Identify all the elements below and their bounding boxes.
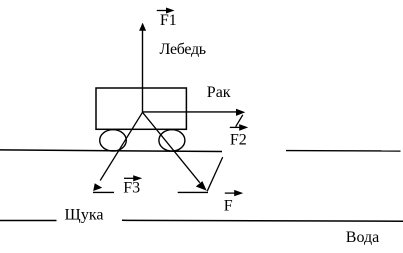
short line under F3 arrowhead bbox=[93, 191, 114, 193]
vector sign over F2 bbox=[230, 124, 248, 131]
svg-text:Вода: Вода bbox=[346, 229, 379, 246]
svg-text:Рак: Рак bbox=[207, 84, 231, 101]
svg-text:F3: F3 bbox=[123, 180, 140, 197]
connector stroke near F2 arrowhead bbox=[236, 115, 243, 127]
svg-text:F: F bbox=[224, 197, 233, 214]
water line bottom long bbox=[122, 219, 403, 222]
svg-text:Лебедь: Лебедь bbox=[160, 41, 206, 58]
short line under resultant arrowhead bbox=[178, 191, 208, 193]
svg-text:F1: F1 bbox=[160, 12, 177, 29]
svg-text:Щука: Щука bbox=[65, 207, 104, 224]
water line bottom left bbox=[0, 220, 57, 222]
cart body rectangle bbox=[96, 88, 186, 129]
vector sign over F1 bbox=[157, 8, 175, 14]
force arrow F1 (vertical, swan pulls up) bbox=[139, 23, 146, 113]
ground line left bbox=[0, 150, 222, 152]
right wheel bbox=[159, 130, 185, 151]
force arrow F3 (diagonal down-left, pike pulls into water) bbox=[93, 112, 142, 191]
vector sign over F bbox=[225, 190, 243, 196]
ground line right bbox=[286, 150, 401, 152]
second stroke of V near resultant arrowhead bbox=[207, 157, 223, 191]
left wheel bbox=[100, 130, 127, 151]
svg-text:F2: F2 bbox=[230, 132, 247, 149]
force arrow F2 (horizontal, crayfish pulls back) bbox=[143, 109, 246, 116]
resultant force arrow F (diagonal down-right) bbox=[143, 112, 207, 190]
vector sign over F3 bbox=[124, 175, 142, 181]
